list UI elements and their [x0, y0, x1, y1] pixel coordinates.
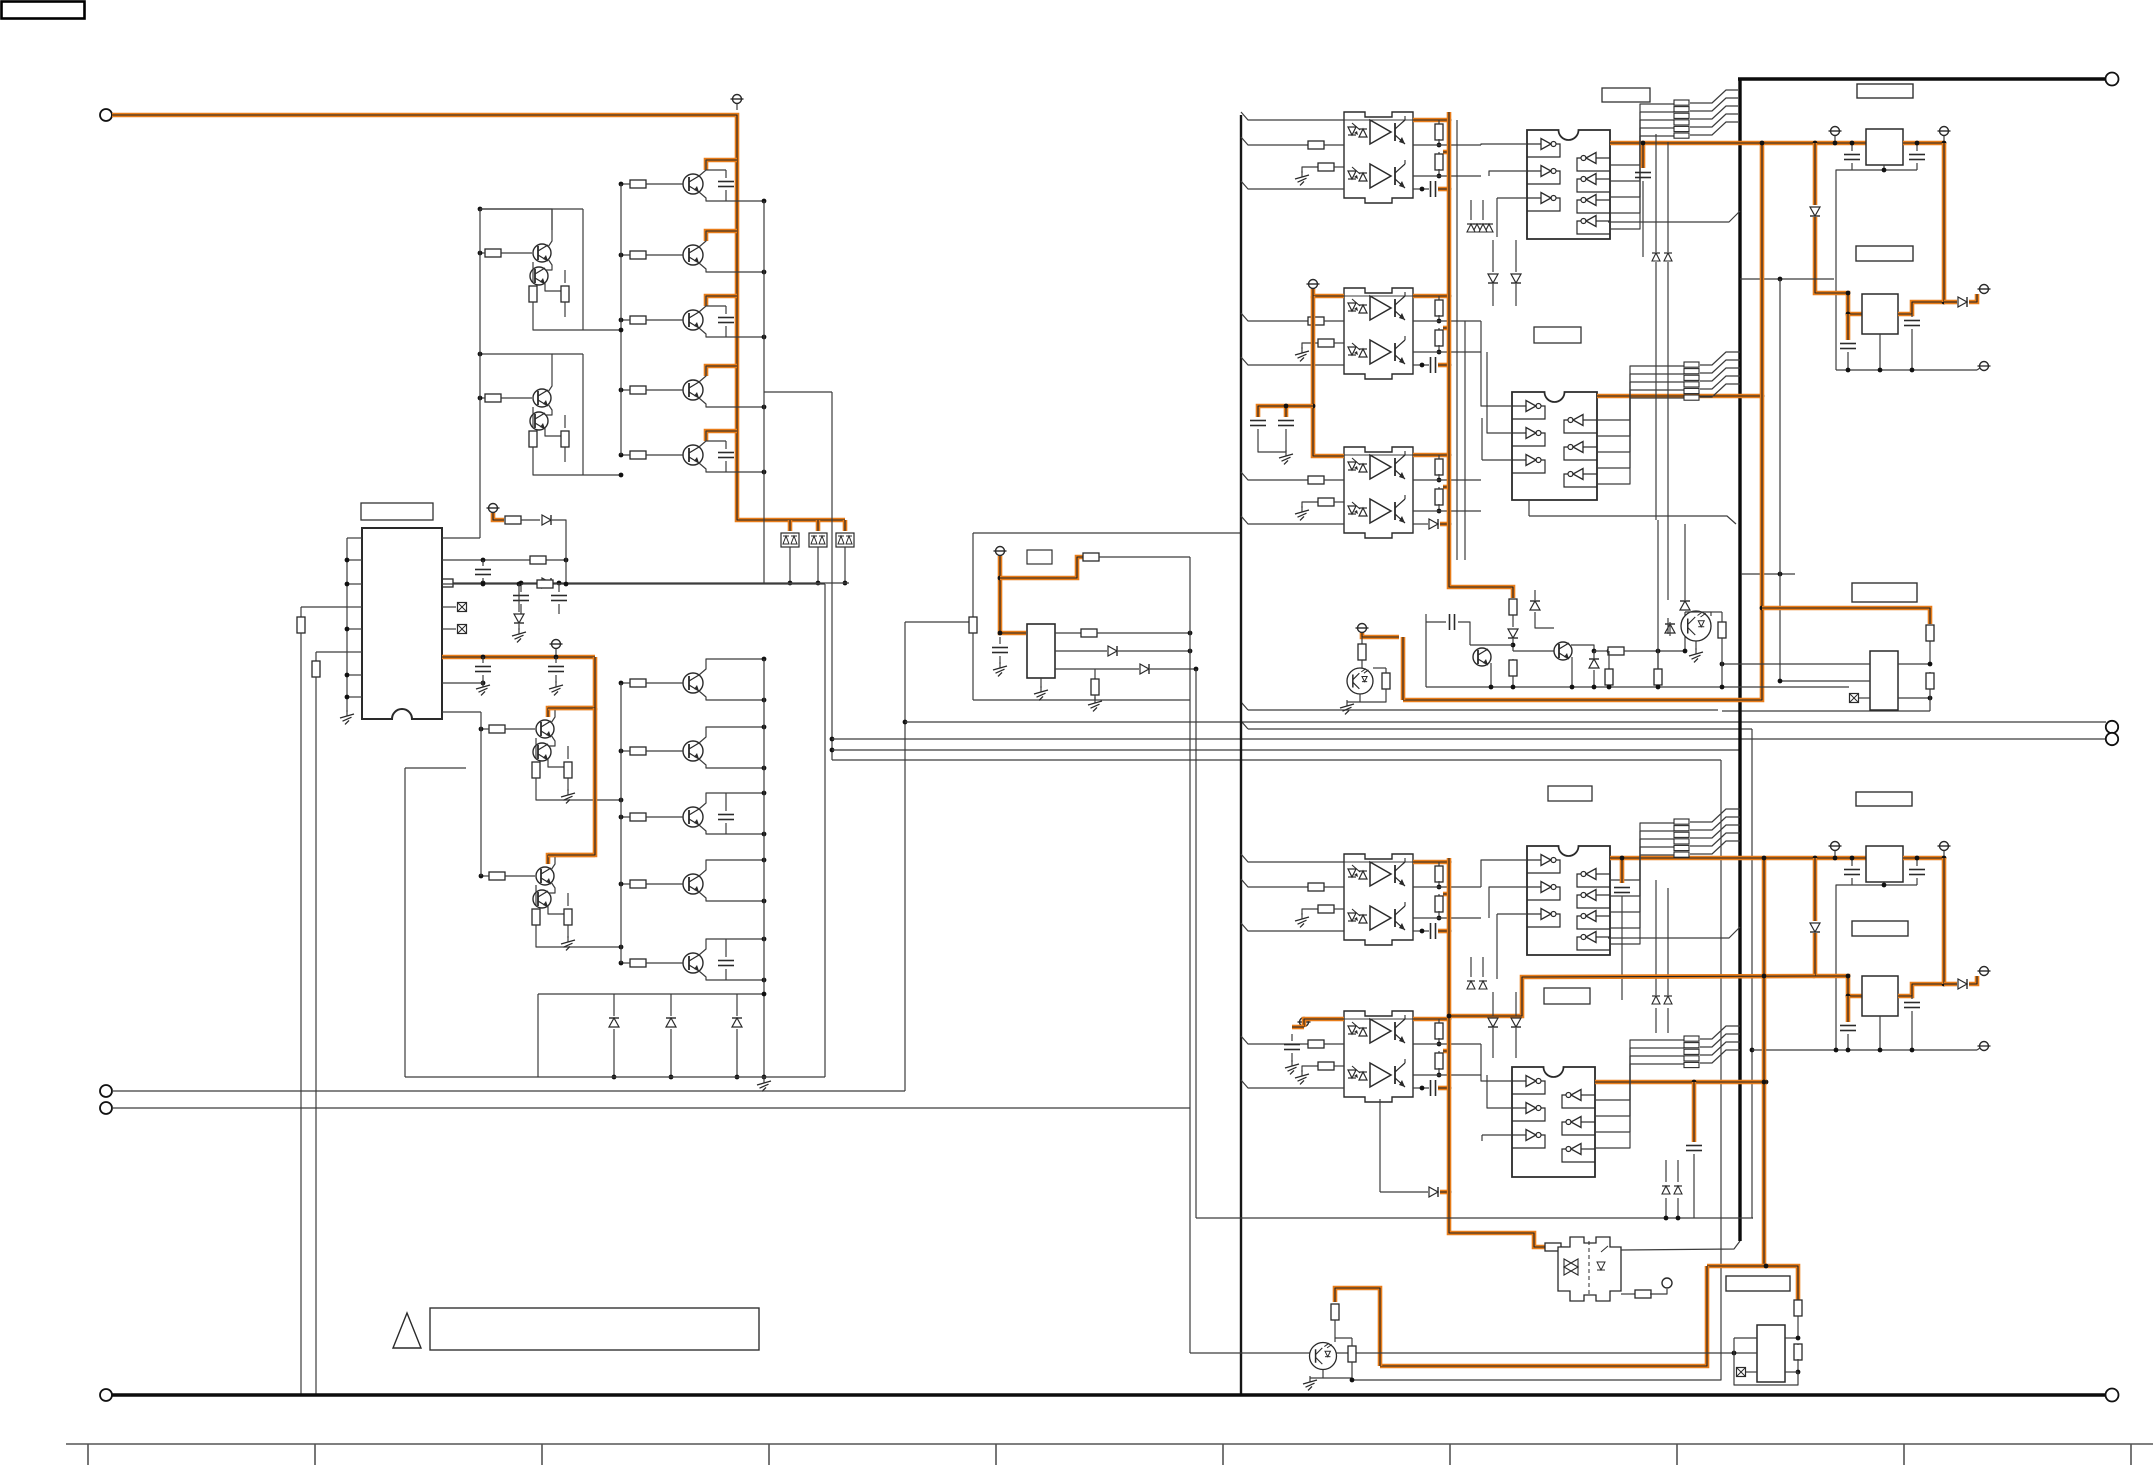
transistor — [536, 867, 554, 885]
collector bus — [763, 659, 765, 1077]
driver IC U4 — [1512, 1067, 1595, 1177]
junction — [1447, 118, 1452, 123]
resistor — [969, 617, 977, 633]
snubber capacitor — [718, 453, 734, 458]
ground — [549, 681, 563, 695]
junction — [619, 182, 624, 187]
junction — [619, 328, 624, 333]
junction — [1910, 368, 1915, 373]
long vertical — [1751, 729, 1753, 1218]
orange — [1401, 637, 1406, 700]
band wire to terminal — [832, 738, 2106, 740]
wire — [1722, 663, 1870, 665]
notes box — [430, 1308, 759, 1350]
orange feed — [548, 855, 595, 864]
title table column divider — [768, 1444, 770, 1465]
pullup resistor — [1435, 866, 1443, 882]
stub — [1834, 851, 1836, 856]
right thick bus — [1738, 79, 1741, 1241]
orange feed — [1000, 556, 1026, 633]
power terminal — [731, 95, 744, 104]
wire — [1657, 651, 1659, 675]
base resistor — [630, 251, 646, 259]
orange corner — [1707, 1266, 1798, 1300]
wire — [518, 624, 520, 630]
resistor — [529, 286, 537, 302]
junction — [788, 581, 793, 586]
junction — [1915, 856, 1920, 861]
output wire — [1413, 175, 1481, 177]
base resistor — [630, 747, 646, 755]
orange stub — [1438, 929, 1449, 934]
IC pin — [347, 628, 362, 630]
junction — [903, 720, 908, 725]
output wire — [1413, 144, 1481, 146]
input wire — [1241, 879, 1308, 887]
wire — [1385, 668, 1387, 673]
cap return — [1258, 429, 1286, 452]
base bus — [620, 184, 622, 455]
wire — [1438, 911, 1440, 918]
diode — [1665, 624, 1675, 633]
emitter wire — [548, 882, 555, 893]
input wire — [1241, 516, 1344, 524]
junction — [762, 698, 767, 703]
ground — [1295, 913, 1309, 927]
terminal — [1662, 1278, 1672, 1288]
wire — [1710, 612, 1712, 616]
orange rail — [1903, 856, 1944, 861]
junction — [1928, 662, 1933, 667]
junction — [1942, 982, 1947, 987]
base resistor — [485, 249, 501, 257]
wire — [1528, 500, 1530, 516]
test point — [458, 625, 467, 634]
junction — [762, 858, 767, 863]
emitter wire — [699, 825, 764, 834]
input wire — [1241, 112, 1344, 120]
orange rail U1 out — [1610, 141, 1866, 146]
junction — [762, 899, 767, 904]
resistor — [1331, 1304, 1339, 1320]
cap lead — [725, 326, 727, 337]
resistor — [1509, 660, 1517, 676]
orange stub — [1443, 485, 1449, 490]
capacitor — [1840, 344, 1856, 349]
wire — [1746, 1371, 1757, 1373]
orange drop — [1815, 933, 1862, 996]
capacitor — [1840, 1026, 1856, 1031]
wire — [1610, 112, 1674, 181]
collector wire — [699, 939, 764, 955]
top bus — [1738, 77, 2106, 80]
base resistor — [489, 872, 505, 880]
collector wire — [551, 708, 555, 723]
wire — [1785, 1371, 1798, 1373]
wire — [1438, 894, 1440, 897]
wire — [1497, 913, 1527, 915]
resistor — [564, 909, 572, 925]
diode — [1810, 207, 1820, 216]
power terminal — [994, 547, 1007, 556]
wire — [1094, 695, 1096, 700]
wire — [1482, 200, 1484, 220]
junction — [1676, 1216, 1681, 1221]
wire — [1118, 650, 1190, 652]
junction — [479, 874, 484, 879]
label box — [1548, 786, 1592, 801]
junction — [619, 945, 624, 950]
output wire — [1413, 1043, 1481, 1045]
wire — [1665, 1198, 1667, 1218]
junction — [481, 581, 486, 586]
connector wire — [1700, 360, 1740, 373]
wire — [1413, 523, 1428, 525]
surge absorber — [781, 533, 799, 547]
junction — [1570, 685, 1575, 690]
junction — [612, 1075, 617, 1080]
junction — [564, 582, 569, 587]
stub — [1621, 1249, 1622, 1251]
emitter wire — [545, 259, 552, 270]
collector wire — [699, 860, 764, 876]
wire — [1438, 1019, 1440, 1024]
wire — [1650, 1289, 1667, 1294]
wire — [1657, 685, 1659, 687]
wire — [442, 559, 566, 561]
wire — [999, 637, 1001, 644]
power terminal — [487, 504, 500, 513]
ground — [512, 628, 526, 642]
base resistor — [630, 180, 646, 188]
base wire — [646, 816, 683, 818]
wire — [545, 282, 565, 291]
orange feed — [1362, 633, 1399, 637]
zener — [1511, 274, 1521, 283]
wire — [564, 447, 566, 462]
wire — [1470, 200, 1472, 220]
wire — [1916, 143, 1918, 151]
title table column divider — [995, 1444, 997, 1465]
wire — [480, 209, 552, 230]
wire — [1334, 908, 1344, 910]
wire — [1055, 650, 1107, 652]
resistor — [1545, 1243, 1561, 1251]
wire — [555, 657, 557, 663]
wire — [1610, 823, 1674, 880]
wire — [1741, 573, 1795, 575]
wire — [1487, 1075, 1512, 1108]
capacitor — [1635, 173, 1651, 178]
ground — [1034, 686, 1048, 700]
wire — [1438, 296, 1440, 301]
wire — [1055, 632, 1081, 634]
wire — [1610, 104, 1674, 165]
wire — [1593, 651, 1595, 659]
junction — [1882, 168, 1887, 173]
wire — [1608, 685, 1610, 687]
wire — [764, 391, 832, 393]
stub — [1943, 136, 1945, 141]
orange drop — [1813, 858, 1818, 921]
orange drop — [816, 520, 821, 531]
input terminal P1 — [100, 109, 112, 121]
wire — [1734, 1337, 1757, 1339]
base resistor — [630, 316, 646, 324]
orange drop — [1813, 143, 1818, 205]
capacitor — [1904, 1003, 1920, 1008]
junction — [762, 657, 767, 662]
cap lead — [725, 306, 727, 314]
power transistor — [683, 807, 703, 827]
converter T2 — [1757, 1325, 1785, 1382]
junction — [1813, 141, 1818, 146]
wire — [1512, 676, 1514, 687]
wire — [1608, 651, 1610, 670]
cluster rail — [1426, 686, 1849, 688]
stub — [1752, 1217, 1753, 1219]
orange stub — [1443, 326, 1449, 331]
junction — [1846, 974, 1851, 979]
emitter wire — [699, 463, 764, 472]
wire — [1334, 342, 1344, 344]
junction — [1437, 1042, 1442, 1047]
junction — [1910, 1048, 1915, 1053]
wire — [1571, 657, 1573, 687]
wire — [1438, 504, 1440, 511]
wire — [1597, 398, 1684, 484]
wire — [1929, 641, 1931, 664]
wire — [1458, 622, 1470, 645]
transistor — [536, 720, 554, 738]
orange output — [1413, 453, 1449, 458]
enclosure bottom — [405, 1076, 825, 1078]
junction — [1656, 685, 1661, 690]
wire — [736, 994, 738, 1016]
emitter wire — [699, 192, 764, 201]
ground — [1303, 1376, 1317, 1390]
wire — [1883, 165, 1885, 170]
wire — [405, 767, 466, 769]
junction — [1641, 141, 1646, 146]
connector wire — [1690, 90, 1738, 103]
label box — [1544, 988, 1590, 1004]
ground — [561, 936, 575, 950]
wire — [1324, 886, 1344, 888]
connector wire — [1690, 809, 1740, 822]
junction — [1447, 1190, 1452, 1195]
ground — [1279, 450, 1293, 464]
IC pin — [347, 583, 362, 585]
diode — [542, 578, 551, 588]
stub — [1943, 851, 1945, 856]
base wire — [646, 319, 683, 321]
resistor — [532, 909, 540, 925]
junction — [1284, 404, 1289, 409]
wire — [1438, 120, 1440, 125]
cap lead — [725, 170, 727, 178]
wire — [410, 582, 437, 584]
wire — [763, 472, 765, 583]
junction — [1850, 141, 1855, 146]
junction — [1683, 649, 1688, 654]
orange stub — [1440, 522, 1449, 527]
title table column divider — [2130, 1444, 2132, 1465]
wire — [1657, 651, 1659, 669]
IC pin — [442, 628, 456, 630]
wire — [501, 252, 532, 254]
sheet corner box — [2, 2, 85, 19]
terminal — [1978, 362, 1991, 371]
wire — [1481, 1044, 1512, 1081]
terminal — [100, 1102, 112, 1114]
wire — [535, 885, 537, 906]
resistor — [437, 579, 453, 587]
diode — [1958, 979, 1967, 989]
wire — [1361, 660, 1363, 672]
orange collector feed — [706, 431, 737, 441]
zener pair — [1652, 253, 1672, 261]
wire — [1610, 128, 1674, 213]
IC pin — [347, 696, 362, 698]
orange feed — [1532, 976, 1815, 977]
wire — [316, 651, 347, 653]
capacitor — [1904, 321, 1920, 326]
orange stub — [1846, 314, 1851, 340]
wire — [1040, 678, 1042, 688]
wire — [1438, 1068, 1440, 1075]
wire — [1489, 887, 1527, 918]
bus elbow — [1241, 702, 1248, 710]
wire — [670, 1029, 672, 1077]
zener — [1508, 629, 1518, 638]
wire — [1496, 198, 1498, 237]
orange feed — [1313, 296, 1344, 456]
input wire — [1241, 1036, 1308, 1044]
base resistor — [630, 386, 646, 394]
return rail — [1752, 1049, 1977, 1051]
wire — [1515, 992, 1517, 1016]
junction — [564, 558, 569, 563]
pullup resistor — [1435, 300, 1443, 316]
wire — [1797, 1359, 1799, 1372]
junction — [1447, 1014, 1452, 1019]
capacitor — [475, 570, 491, 575]
resistor — [1635, 1290, 1651, 1298]
driver IC U3 — [1527, 846, 1610, 955]
ground — [757, 1077, 771, 1091]
resistor — [1091, 679, 1099, 695]
wire — [1470, 644, 1513, 646]
junction — [478, 251, 483, 256]
orange output — [1413, 118, 1449, 123]
wire — [1597, 366, 1684, 420]
orange rail lower — [1449, 858, 1545, 1247]
long wire — [1190, 1352, 1757, 1354]
resistor — [1605, 669, 1613, 685]
wire — [1929, 698, 1931, 711]
wire — [480, 252, 485, 254]
wire — [706, 169, 726, 171]
orange main loop — [1403, 143, 1762, 700]
orange rail — [1903, 141, 1944, 146]
resistor — [561, 431, 569, 447]
wire — [613, 994, 615, 1016]
power terminal — [1307, 280, 1320, 289]
IC pin — [347, 606, 362, 608]
wire — [1535, 612, 1554, 628]
transistor — [533, 244, 551, 262]
wire — [535, 738, 537, 759]
wire — [1426, 621, 1446, 623]
wire — [1512, 639, 1514, 651]
wire — [1413, 930, 1429, 932]
orange stub — [1440, 1190, 1449, 1195]
junction — [1778, 572, 1783, 577]
connector wire — [1700, 368, 1740, 381]
junction — [1833, 141, 1838, 146]
warning triangle — [393, 1313, 421, 1348]
orange to terminal — [1969, 976, 1977, 984]
power transistor — [683, 174, 703, 194]
orange — [1944, 982, 1957, 987]
capacitor — [475, 667, 491, 672]
base wire — [621, 883, 630, 885]
wire — [1624, 650, 1685, 652]
junction — [554, 655, 559, 660]
IC label box — [361, 503, 433, 520]
junction — [1850, 856, 1855, 861]
vertical — [1779, 279, 1781, 681]
label box — [1534, 327, 1581, 343]
junction — [1846, 312, 1851, 317]
diode — [609, 1018, 619, 1027]
wire — [1512, 615, 1514, 627]
wire — [1334, 166, 1344, 168]
long wire — [300, 633, 302, 1394]
orange collector feed — [706, 231, 737, 241]
wire — [1097, 632, 1190, 634]
power transistor — [683, 741, 703, 761]
junction — [830, 748, 835, 753]
input wire — [1241, 313, 1308, 321]
power transistor — [683, 673, 703, 693]
wire — [1496, 914, 1498, 979]
input wire — [1241, 472, 1308, 480]
junction — [1607, 649, 1612, 654]
wire — [1492, 1028, 1494, 1058]
regulator REG2 — [1862, 294, 1898, 334]
wire — [1438, 152, 1440, 155]
wire stub — [736, 104, 738, 110]
wire — [1481, 418, 1483, 460]
junction — [1942, 300, 1947, 305]
junction — [481, 582, 486, 587]
junction — [762, 992, 767, 997]
junction — [762, 978, 767, 983]
input wire — [1241, 1080, 1344, 1088]
junction — [1447, 860, 1452, 865]
long vertical — [1667, 888, 1669, 995]
wire — [905, 621, 973, 623]
wire — [1380, 1191, 1428, 1193]
label box — [1852, 583, 1917, 602]
wire — [1734, 1353, 1798, 1385]
wire — [1438, 862, 1440, 867]
orange loop — [1335, 1288, 1380, 1366]
output wire — [1413, 320, 1481, 322]
wire — [1438, 487, 1440, 490]
